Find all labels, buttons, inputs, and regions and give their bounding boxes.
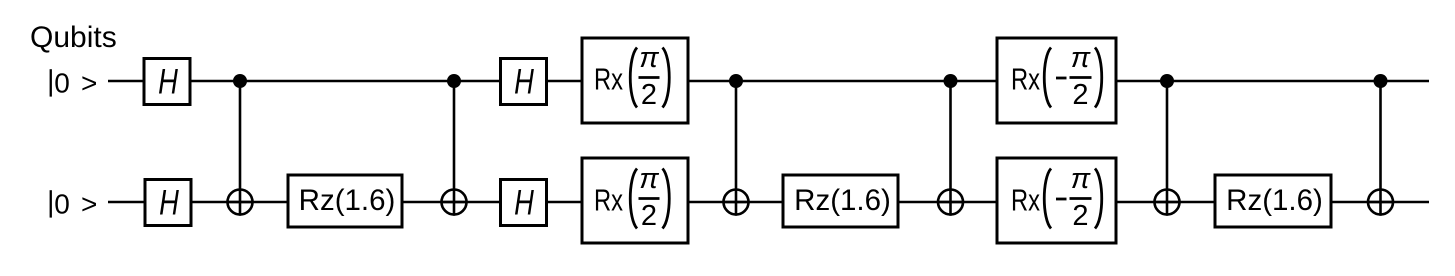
gate H q0 #1 [144, 59, 190, 105]
gate H q1 #2 [501, 180, 547, 226]
CX1 target [226, 190, 254, 215]
wire CX2 vertical [453, 81, 456, 216]
gate Rx(-pi/2) q0 [997, 38, 1116, 123]
svg-text:Rx: Rx [594, 63, 623, 97]
qubit q0 label |0> [50, 68, 98, 99]
gate H q0 #2 [501, 59, 547, 105]
gate Rz(1.6) q1 #2 [783, 175, 898, 227]
gate Rz(1.6) q1 #1 [288, 175, 402, 227]
svg-text:2: 2 [1072, 200, 1088, 232]
CX4 control dot [944, 74, 958, 88]
CX1 control dot [233, 74, 247, 88]
svg-text:Qubits: Qubits [30, 21, 117, 54]
qubit q1 label |0> [50, 189, 98, 220]
svg-text:Rx: Rx [1011, 184, 1040, 218]
svg-text:Rz(1.6): Rz(1.6) [1226, 184, 1323, 217]
CX5 control dot [1160, 74, 1174, 88]
svg-text:π: π [639, 42, 659, 74]
gate Rx(pi/2) q0 [582, 38, 688, 123]
svg-text:2: 2 [641, 200, 657, 232]
wire CX1 vertical [239, 81, 242, 216]
svg-text:Rx: Rx [1011, 63, 1040, 97]
svg-text:>: > [81, 189, 97, 220]
gate Rx(pi/2) q1 [582, 158, 688, 243]
wire CX5 vertical [1166, 81, 1169, 216]
svg-text:H: H [158, 61, 178, 101]
wire CX4 vertical [949, 81, 952, 216]
wire q0 [108, 80, 1429, 83]
svg-text:π: π [1071, 163, 1091, 195]
CX2 control dot [447, 74, 461, 88]
CX2 target [440, 190, 468, 215]
svg-text:Rz(1.6): Rz(1.6) [299, 184, 396, 217]
svg-text:π: π [1071, 42, 1091, 74]
CX4 target [937, 190, 965, 215]
wire CX3 vertical [735, 81, 738, 216]
svg-text:Rz(1.6): Rz(1.6) [794, 184, 891, 217]
CX6 target [1367, 190, 1395, 215]
svg-text:0: 0 [54, 68, 70, 99]
wire q1 [108, 201, 1429, 204]
svg-text:2: 2 [641, 79, 657, 111]
svg-text:H: H [514, 61, 534, 101]
gate Rx(-pi/2) q1 [997, 158, 1116, 243]
svg-text:Rx: Rx [594, 184, 623, 218]
svg-text:>: > [81, 68, 97, 99]
CX5 target [1153, 190, 1181, 215]
svg-text:H: H [514, 182, 534, 222]
svg-text:2: 2 [1072, 79, 1088, 111]
svg-text:H: H [159, 182, 179, 222]
wire CX6 vertical [1379, 81, 1382, 216]
CX6 control dot [1374, 74, 1388, 88]
CX3 control dot [729, 74, 743, 88]
gate Rz(1.6) q1 #3 [1215, 175, 1331, 227]
svg-text:π: π [639, 163, 659, 195]
svg-text:0: 0 [54, 189, 70, 220]
gate H q1 #1 [145, 180, 191, 226]
CX3 target [722, 190, 750, 215]
